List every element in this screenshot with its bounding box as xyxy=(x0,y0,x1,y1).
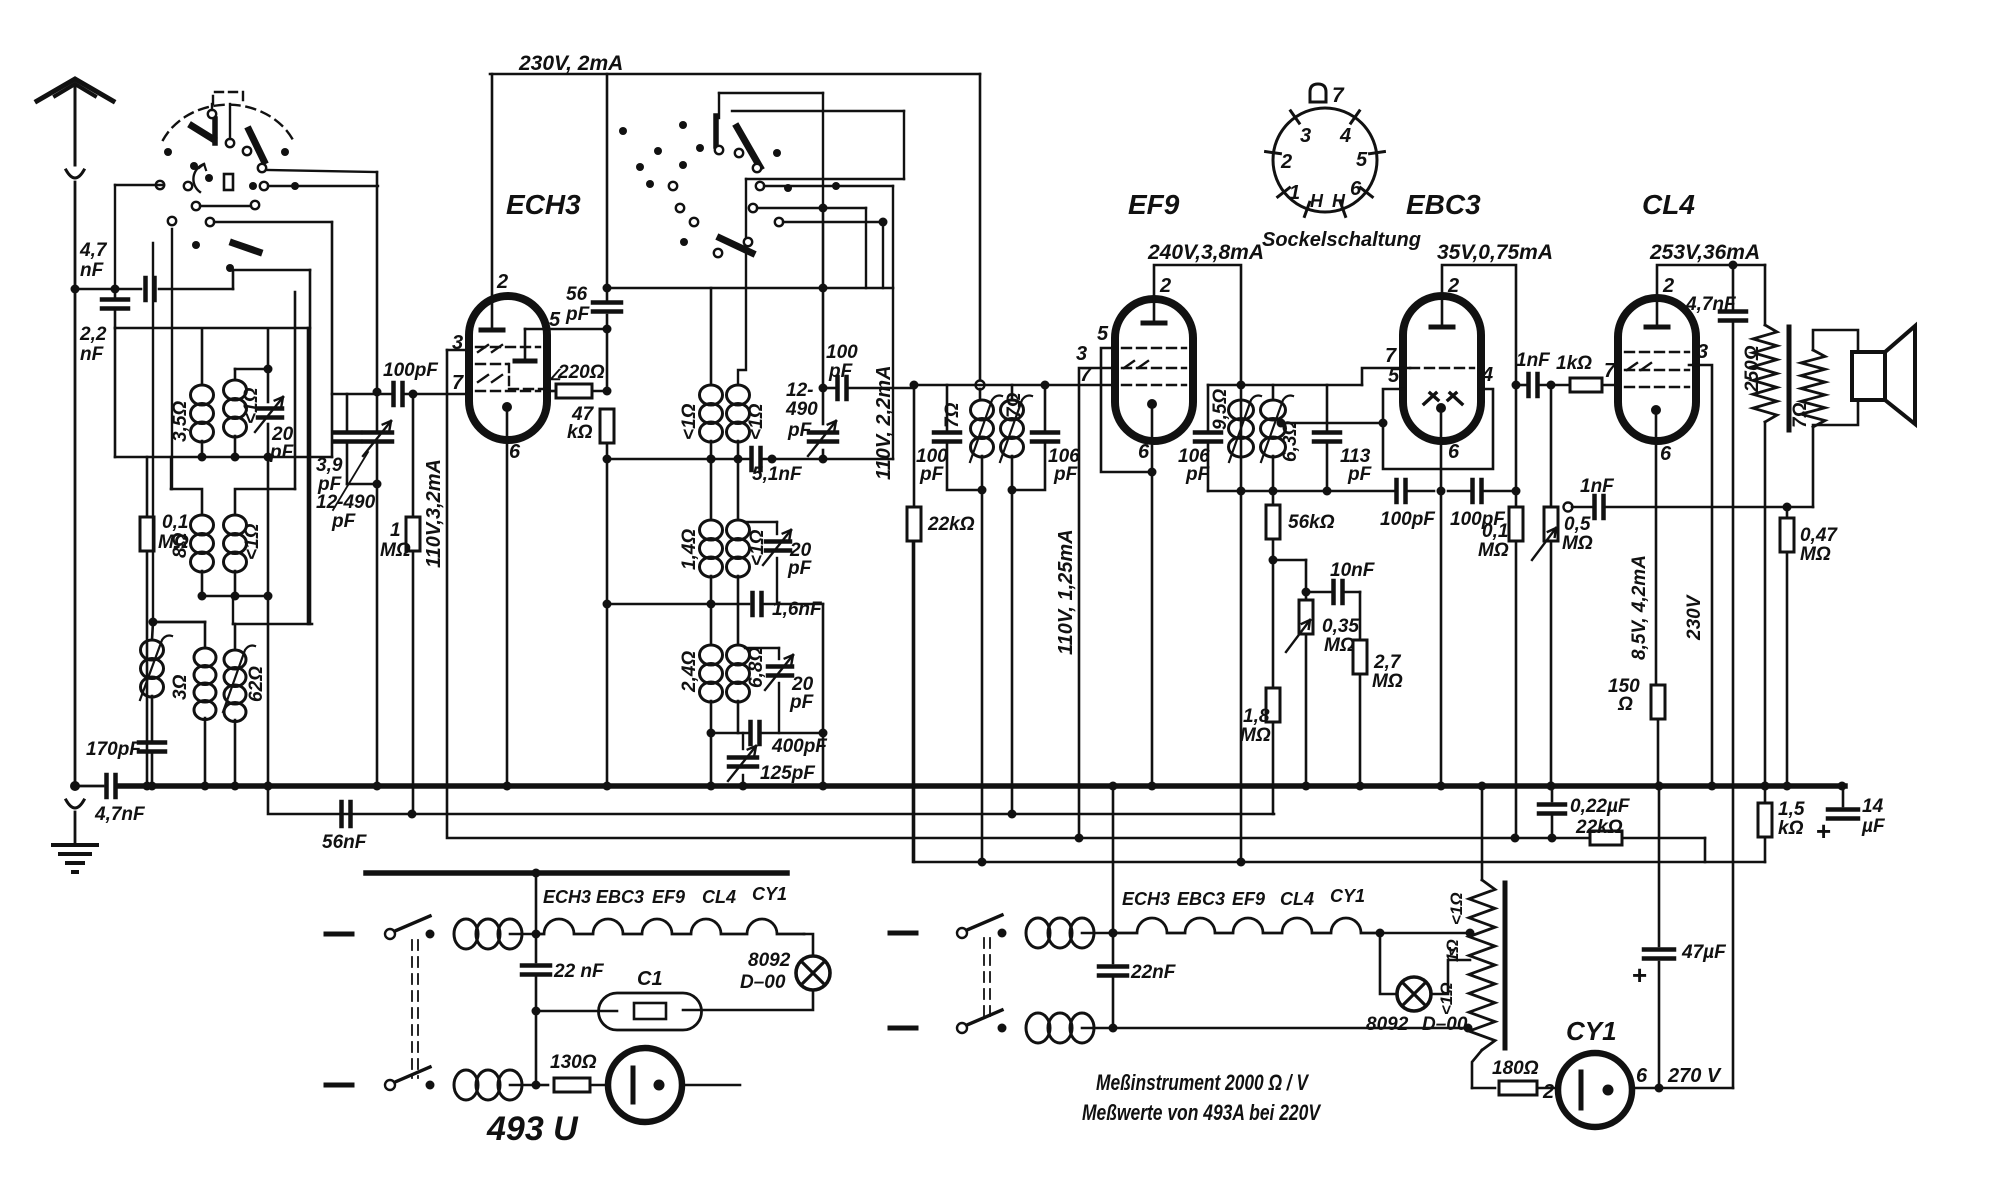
svg-text:pF: pF xyxy=(787,558,813,579)
ECH3 triode grid arrows xyxy=(478,345,502,352)
EF9 pin5 wire xyxy=(1101,348,1152,472)
coil <1ohm padder B right xyxy=(737,459,740,520)
svg-text:4,7: 4,7 xyxy=(79,240,108,261)
capacitor 56pF xyxy=(593,300,621,305)
svg-text:62Ω: 62Ω xyxy=(246,666,267,702)
resistor 22k line3 xyxy=(1590,831,1622,845)
ground symbol xyxy=(53,843,97,847)
svg-text:C1: C1 xyxy=(637,968,663,990)
svg-text:CL4: CL4 xyxy=(702,887,736,907)
svg-text:4,7nF: 4,7nF xyxy=(1685,294,1737,315)
svg-text:8Ω: 8Ω xyxy=(170,532,191,558)
IFT3 top line xyxy=(1208,384,1241,387)
IFT2 secondary coil 7ohm xyxy=(1011,385,1014,400)
wire x823 padder right xyxy=(822,604,825,733)
svg-text:1nF: 1nF xyxy=(1516,350,1551,371)
svg-text:ECH3: ECH3 xyxy=(506,189,581,220)
resistor 1.5k xyxy=(1761,782,1770,791)
capacitor 100pF grid ECH3 xyxy=(377,393,391,396)
capacitor 4.7nF bus series xyxy=(104,775,109,797)
svg-text:CL4: CL4 xyxy=(1642,189,1695,220)
svg-text:pF: pF xyxy=(1053,464,1079,485)
svg-text:5: 5 xyxy=(1388,365,1400,387)
svg-text:230V: 230V xyxy=(1684,594,1705,641)
wire IFT3 sec tap to diode xyxy=(1281,422,1383,425)
svg-text:CL4: CL4 xyxy=(1280,889,1314,909)
socket key symbol xyxy=(1310,84,1326,102)
coil <1ohm antenna secondary 2 xyxy=(235,489,295,515)
capacitor 56nF on line2 xyxy=(339,802,344,826)
svg-text:3Ω: 3Ω xyxy=(170,674,191,700)
coil 8ohm antenna primary 2 xyxy=(170,457,172,489)
svg-text:<1Ω: <1Ω xyxy=(1447,892,1466,925)
svg-text:6: 6 xyxy=(1448,441,1460,463)
svg-text:0,5: 0,5 xyxy=(1564,514,1591,535)
svg-text:EF9: EF9 xyxy=(1232,889,1265,909)
wire bottom to rheostat tap xyxy=(1113,1027,1468,1030)
resistor 220ohm xyxy=(547,390,555,393)
capacitor 106pF IFT2 xyxy=(1044,385,1047,430)
svg-text:MΩ: MΩ xyxy=(1372,671,1403,692)
svg-text:8,5V, 4,2mA: 8,5V, 4,2mA xyxy=(1629,555,1650,660)
svg-text:<1Ω: <1Ω xyxy=(1437,982,1456,1015)
band switch rotor mark xyxy=(224,174,233,190)
wire osc A bottom with 5.1nF xyxy=(711,458,749,461)
switch contacts open circles xyxy=(208,110,216,118)
trimmer 20pF C xyxy=(745,647,779,649)
switch wiring xyxy=(229,104,231,139)
switch linkage dashed xyxy=(411,940,413,1078)
svg-text:0,35: 0,35 xyxy=(1322,616,1359,637)
resistor 47k xyxy=(600,409,614,443)
capacitor 0.22uF xyxy=(1547,782,1556,791)
svg-text:pF: pF xyxy=(1185,464,1211,485)
lamp 8092 right xyxy=(1380,933,1397,994)
capacitor 22nF left xyxy=(535,934,538,962)
mains input top-left xyxy=(326,932,352,937)
svg-text:1: 1 xyxy=(390,520,401,541)
svg-text:22kΩ: 22kΩ xyxy=(927,514,975,535)
svg-text:pF: pF xyxy=(828,361,854,382)
svg-text:nF: nF xyxy=(80,344,105,365)
wire tuning cap to bus xyxy=(376,484,379,786)
svg-text:1,4Ω: 1,4Ω xyxy=(679,529,700,570)
svg-text:12-490: 12-490 xyxy=(316,492,376,513)
svg-text:H: H xyxy=(1310,191,1324,211)
node line4 dots xyxy=(978,858,987,867)
svg-text:1: 1 xyxy=(1289,182,1300,204)
svg-text:EBC3: EBC3 xyxy=(1177,889,1225,909)
resistor 0.1M xyxy=(1515,385,1518,491)
wire 230V rail xyxy=(490,73,980,76)
mains input top-right xyxy=(890,931,916,936)
svg-text:µF: µF xyxy=(1861,816,1886,837)
svg-text:125pF: 125pF xyxy=(760,763,816,784)
supply bus bar xyxy=(366,870,787,876)
svg-text:110V, 1,25mA: 110V, 1,25mA xyxy=(1055,529,1077,655)
svg-text:D–00: D–00 xyxy=(740,972,786,993)
switch lever 3 xyxy=(233,243,259,252)
svg-text:6: 6 xyxy=(1660,443,1672,465)
osc switch frame xyxy=(719,92,823,94)
svg-text:22 nF: 22 nF xyxy=(553,961,605,982)
IF bottom line 490 xyxy=(1208,490,1394,493)
mains input bottom-right xyxy=(890,1026,916,1031)
line4 return xyxy=(913,540,1765,862)
capacitor 22nF right xyxy=(1109,929,1118,938)
svg-text:EF9: EF9 xyxy=(652,887,685,907)
svg-text:22kΩ: 22kΩ xyxy=(1575,817,1623,838)
svg-text:493 U: 493 U xyxy=(486,1110,579,1148)
wire 47k junction right xyxy=(607,458,711,461)
svg-text:6: 6 xyxy=(509,441,521,463)
svg-text:6: 6 xyxy=(1636,1065,1648,1087)
svg-text:6: 6 xyxy=(1350,178,1362,200)
svg-text:2: 2 xyxy=(1280,151,1292,173)
svg-text:230V, 2mA: 230V, 2mA xyxy=(518,52,623,75)
svg-text:MΩ: MΩ xyxy=(1240,725,1271,746)
coil LW with adjuster xyxy=(141,640,164,660)
svg-text:2,2: 2,2 xyxy=(79,324,107,345)
IFT3 secondary 6.3ohm xyxy=(1272,385,1275,400)
coil 3ohm xyxy=(204,622,207,648)
resistor 0.47M xyxy=(1783,503,1792,512)
svg-text:EF9: EF9 xyxy=(1128,189,1180,220)
variable capacitor 12-490pF main tuning xyxy=(373,388,382,397)
svg-text:5: 5 xyxy=(1097,323,1109,345)
wire switch to tuning cap x377 xyxy=(376,172,379,392)
svg-text:CY1: CY1 xyxy=(1330,886,1365,906)
capacitor 10nF xyxy=(1302,588,1311,597)
svg-text:pF: pF xyxy=(787,420,813,441)
svg-text:240V,3,8mA: 240V,3,8mA xyxy=(1147,241,1264,264)
wire to wave band coils xyxy=(152,243,154,622)
capacitor 113pF xyxy=(1326,385,1329,430)
meter left xyxy=(608,1048,682,1122)
wire ECH3 plate supply xyxy=(491,74,494,330)
transformer primary 250ohm xyxy=(1764,265,1767,325)
resistor 2.7M xyxy=(1359,592,1362,640)
EF9 cathode xyxy=(1147,399,1157,409)
tube EF9 xyxy=(1115,299,1193,441)
wire osc x711 top xyxy=(710,288,713,385)
svg-text:220Ω: 220Ω xyxy=(557,362,605,383)
wire ECH3 pin5 line xyxy=(525,328,607,331)
capacitor 1nF tone xyxy=(1572,506,1592,509)
svg-text:130Ω: 130Ω xyxy=(550,1052,597,1073)
mains input bottom-left xyxy=(326,1083,352,1088)
coil <1ohm osc A left xyxy=(700,385,723,405)
svg-text:56: 56 xyxy=(566,284,588,305)
svg-text:<1Ω: <1Ω xyxy=(242,523,263,560)
trimmer 20pF B xyxy=(745,521,777,523)
svg-text:Ω: Ω xyxy=(1617,694,1633,715)
resistor 22k IF xyxy=(913,385,916,507)
socket circle xyxy=(1273,108,1377,212)
svg-text:<1Ω: <1Ω xyxy=(746,403,767,440)
svg-text:2: 2 xyxy=(496,271,508,293)
svg-text:nF: nF xyxy=(80,260,105,281)
tube CL4 xyxy=(1618,298,1696,441)
svg-text:7: 7 xyxy=(1385,345,1397,367)
svg-text:MΩ: MΩ xyxy=(380,540,411,561)
svg-text:110V,3,2mA: 110V,3,2mA xyxy=(423,459,445,568)
svg-text:1nF: 1nF xyxy=(1580,476,1615,497)
svg-text:253V,36mA: 253V,36mA xyxy=(1649,241,1760,264)
osc switch dots xyxy=(679,121,687,129)
ECH3 hexode grids xyxy=(476,363,508,365)
svg-text:2,7: 2,7 xyxy=(1373,652,1402,673)
svg-text:ECH3: ECH3 xyxy=(543,887,591,907)
switch lever 2 xyxy=(249,130,264,161)
wire 3.9pF top xyxy=(332,393,377,396)
EBC3 diode plates xyxy=(1424,393,1438,404)
wire heater feed right xyxy=(1112,786,1115,933)
svg-text:7: 7 xyxy=(1332,84,1345,107)
wire coil1 top to trimmer xyxy=(235,368,268,371)
wire IFT2 feed from rail xyxy=(979,74,982,381)
resistor 1M grid leak xyxy=(412,394,415,517)
svg-text:6: 6 xyxy=(1138,441,1150,463)
resistor 150ohm cathode xyxy=(1651,685,1665,719)
EF9 pin3 wire xyxy=(1079,368,1115,838)
resistor 0.1M antenna xyxy=(146,457,149,515)
wire chain to rheostat xyxy=(1380,932,1470,935)
wire padder bottom 1.6nF xyxy=(607,603,749,606)
potentiometer 0.5M volume xyxy=(1550,385,1553,505)
svg-text:0,47: 0,47 xyxy=(1800,525,1838,546)
svg-text:5: 5 xyxy=(549,309,561,331)
osc switch wiring xyxy=(757,207,823,209)
EBC3 pin7 wire xyxy=(1362,368,1410,385)
capacitor 4.7nF antenna series xyxy=(75,288,141,291)
capacitor 47uF electrolytic xyxy=(1655,782,1664,791)
svg-text:1kΩ: 1kΩ xyxy=(1556,353,1592,374)
resistor 56k xyxy=(1272,491,1275,506)
svg-text:56nF: 56nF xyxy=(322,832,368,853)
trimmer 20pF band1 xyxy=(267,369,270,402)
wire coil2 bottom xyxy=(202,595,268,598)
svg-text:1,5: 1,5 xyxy=(1778,799,1805,820)
potentiometer 0.35M xyxy=(1273,559,1306,562)
svg-text:2: 2 xyxy=(1662,275,1674,297)
capacitor 100pF diode line b xyxy=(1448,490,1470,493)
svg-text:2: 2 xyxy=(1447,275,1459,297)
band switch wafer dashed frame xyxy=(213,92,243,104)
svg-text:35V,0,75mA: 35V,0,75mA xyxy=(1437,241,1553,264)
IFT3 top right line xyxy=(1241,384,1362,387)
node line3 dots xyxy=(1075,834,1084,843)
svg-text:490: 490 xyxy=(785,399,818,420)
wire osc mid column xyxy=(707,455,716,464)
wire IFT2 primary return xyxy=(981,490,984,862)
capacitor 170pF xyxy=(139,740,165,745)
rheostat xyxy=(1481,786,1484,880)
svg-text:pF: pF xyxy=(789,692,815,713)
resistor 1k xyxy=(1570,378,1602,392)
capacitor 100pF diode line a xyxy=(1393,490,1395,492)
speaker xyxy=(1852,352,1885,400)
capacitor 106pF IFT3 xyxy=(1207,385,1210,430)
svg-text:MΩ: MΩ xyxy=(1800,544,1831,565)
svg-text:H: H xyxy=(1332,191,1346,211)
svg-text:22nF: 22nF xyxy=(1130,962,1177,983)
svg-text:MΩ: MΩ xyxy=(1324,635,1355,656)
svg-text:CY1: CY1 xyxy=(1566,1016,1617,1046)
svg-text:Meßwerte von 493A bei 220V: Meßwerte von 493A bei 220V xyxy=(1082,1100,1322,1125)
svg-text:6,8Ω: 6,8Ω xyxy=(746,647,767,688)
wire 270V CY1 line xyxy=(1632,1087,1733,1090)
node antenna junction xyxy=(71,285,80,294)
svg-text:7Ω: 7Ω xyxy=(1004,392,1025,418)
variable capacitor 12-490pF osc xyxy=(809,430,837,435)
ECH3 triode anode xyxy=(515,359,535,364)
wire osc x823 xyxy=(822,208,825,388)
wire antenna lead-in down xyxy=(74,182,77,786)
tube CY1 rectifier xyxy=(1558,1053,1632,1127)
heater chain right xyxy=(1113,918,1380,933)
fuse C1 xyxy=(599,993,702,1030)
svg-text:8092: 8092 xyxy=(748,950,791,971)
svg-text:EBC3: EBC3 xyxy=(1406,189,1481,220)
svg-text:0,22µF: 0,22µF xyxy=(1570,796,1631,817)
wire x1241 down xyxy=(1240,385,1243,862)
wire ECH3 pin3 xyxy=(447,349,469,352)
tube ECH3 xyxy=(469,296,547,440)
wire 2.2nF bottom line xyxy=(115,327,310,330)
switch contact dots xyxy=(164,148,172,156)
wires to bus xyxy=(710,733,713,786)
coil <1ohm osc A right xyxy=(727,385,750,405)
svg-text:CY1: CY1 xyxy=(752,884,787,904)
EBC3 diode box xyxy=(1383,389,1493,469)
svg-text:kΩ: kΩ xyxy=(1778,818,1804,839)
svg-text:2: 2 xyxy=(1542,1081,1554,1103)
svg-text:pF: pF xyxy=(331,511,357,532)
avc line2 xyxy=(268,786,1274,814)
svg-text:100pF: 100pF xyxy=(1380,509,1436,530)
wire left vert x152 xyxy=(152,622,153,640)
resistor 1.8M xyxy=(1266,688,1280,722)
EBC3 cathode xyxy=(1436,403,1446,413)
lamp 8092 left xyxy=(804,934,813,956)
node 1M to line2 xyxy=(408,810,417,819)
osc switch contacts xyxy=(715,146,723,154)
coil 1.4ohm padder B left xyxy=(700,520,723,540)
svg-text:pF: pF xyxy=(1347,464,1373,485)
svg-text:EBC3: EBC3 xyxy=(596,887,644,907)
wire line3-line4 join xyxy=(1704,838,1707,862)
EF9 grids xyxy=(1122,347,1186,349)
svg-text:9,5Ω: 9,5Ω xyxy=(1210,389,1231,430)
resistor 180ohm xyxy=(1472,1087,1495,1090)
svg-text:5: 5 xyxy=(1356,149,1368,171)
svg-text:+: + xyxy=(1816,816,1831,846)
svg-text:2: 2 xyxy=(1159,275,1171,297)
CL4 cathode xyxy=(1651,405,1661,415)
svg-text:100pF: 100pF xyxy=(383,360,439,381)
svg-text:100: 100 xyxy=(826,342,858,363)
coil 3.5ohm antenna primary 1 xyxy=(201,330,204,385)
svg-text:250Ω: 250Ω xyxy=(1742,345,1763,393)
coil <1ohm antenna secondary 1 xyxy=(234,369,237,380)
transformer core xyxy=(1787,327,1792,430)
svg-text:7: 7 xyxy=(452,372,464,394)
wire C1 left xyxy=(536,1010,617,1013)
svg-text:2,4Ω: 2,4Ω xyxy=(679,651,700,693)
svg-text:10nF: 10nF xyxy=(1330,560,1376,581)
CL4 pin3 screen wire xyxy=(1689,365,1712,786)
svg-text:Sockelschaltung: Sockelschaltung xyxy=(1262,229,1421,251)
EBC3 grid xyxy=(1410,367,1474,369)
svg-text:12-: 12- xyxy=(786,380,813,401)
capacitor 1nF af coupling xyxy=(1512,381,1521,390)
capacitor 14uF electrolytic xyxy=(1838,782,1847,791)
svg-text:4: 4 xyxy=(1481,364,1493,386)
svg-text:pF: pF xyxy=(919,464,945,485)
wire lamp to C1 xyxy=(683,990,813,1010)
svg-text:5,1nF: 5,1nF xyxy=(752,464,803,485)
svg-text:3: 3 xyxy=(1697,341,1708,363)
svg-text:MΩ: MΩ xyxy=(1478,540,1509,561)
antenna xyxy=(37,79,113,101)
svg-text:3,9: 3,9 xyxy=(316,455,343,476)
svg-text:47µF: 47µF xyxy=(1681,942,1727,963)
svg-text:4: 4 xyxy=(1339,125,1351,147)
socket pins xyxy=(1291,111,1300,123)
svg-text:3: 3 xyxy=(1076,343,1087,365)
svg-text:pF: pF xyxy=(269,442,295,463)
wire osc top line xyxy=(607,287,893,290)
main bus thick xyxy=(75,785,103,788)
svg-text:1,6nF: 1,6nF xyxy=(772,599,823,620)
svg-text:14: 14 xyxy=(1862,796,1884,817)
ECH3 grid dashed exit xyxy=(509,388,549,390)
tube EBC3 xyxy=(1403,296,1481,441)
svg-text:ECH3: ECH3 xyxy=(1122,889,1170,909)
svg-text:4,7nF: 4,7nF xyxy=(94,804,146,825)
capacitor 4.7nF plate xyxy=(1732,265,1735,309)
svg-text:400pF: 400pF xyxy=(771,736,828,757)
capacitor 400pF xyxy=(711,732,748,735)
svg-text:110V, 2,2mA: 110V, 2,2mA xyxy=(873,365,895,480)
wire IFT2 secondary return xyxy=(1011,490,1014,814)
capacitor 100pF osc xyxy=(823,387,835,390)
svg-text:7Ω: 7Ω xyxy=(1790,402,1811,428)
svg-text:7Ω: 7Ω xyxy=(942,402,963,428)
wire 4.7nF to band switch xyxy=(233,270,310,289)
IFT3 primary 9.5ohm xyxy=(1229,400,1254,420)
svg-text:56kΩ: 56kΩ xyxy=(1288,512,1335,533)
switch linkage dashed right xyxy=(983,938,985,1022)
IFT2 primary coil 7ohm xyxy=(979,389,982,400)
wire pin7 line EF9 xyxy=(914,384,1115,387)
wire coil bottom line xyxy=(115,456,332,459)
avc line3 xyxy=(447,350,1590,838)
coil 6.8ohm C right xyxy=(737,604,740,645)
svg-text:Meßinstrument 2000 Ω / V: Meßinstrument 2000 Ω / V xyxy=(1096,1070,1310,1095)
coil 2.4ohm C left xyxy=(710,604,713,645)
svg-text:MΩ: MΩ xyxy=(1562,533,1593,554)
variable capacitor 125pF xyxy=(729,755,757,760)
svg-text:270 V: 270 V xyxy=(1667,1065,1722,1087)
svg-text:<1Ω: <1Ω xyxy=(679,403,700,440)
resistor 130ohm xyxy=(536,1084,548,1087)
svg-text:pF: pF xyxy=(565,304,591,325)
switch lever 1 xyxy=(212,119,218,143)
svg-text:1,8: 1,8 xyxy=(1243,706,1270,727)
svg-text:8092: 8092 xyxy=(1366,1014,1409,1035)
